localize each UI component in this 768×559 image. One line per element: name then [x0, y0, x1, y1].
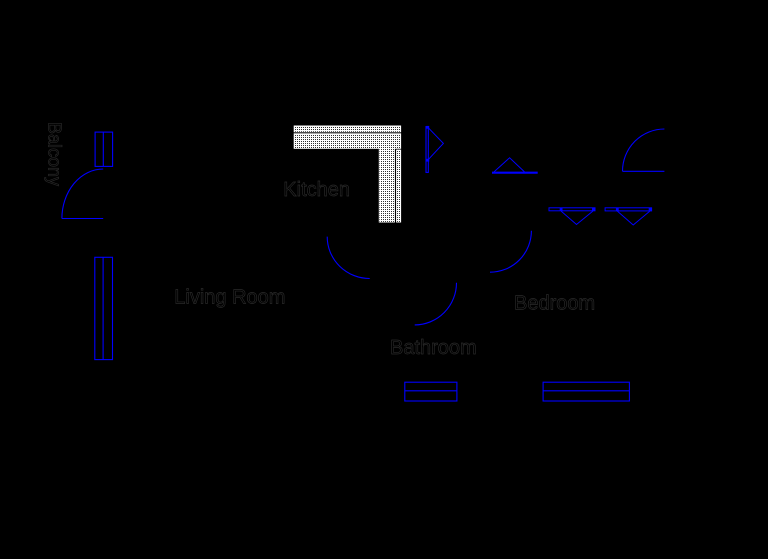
- window W4 (bedroom window): [543, 382, 629, 401]
- window W2 (left wall long window): [95, 257, 113, 359]
- door D1 leaf: [62, 218, 103, 220]
- door D2 leaf: [623, 170, 665, 172]
- door arc A3 (kitchen entry): [327, 237, 370, 279]
- window W1 (balcony door sidelight): [95, 132, 113, 166]
- casement window symbol F1 frame: [426, 127, 428, 173]
- door TR1 threshold line: [492, 172, 538, 174]
- door D1 swing arc: [62, 169, 103, 219]
- wall hatched main horizontal band: [294, 134, 401, 149]
- casement F1 junction squares: [426, 126, 429, 162]
- svg-text:Bedroom: Bedroom: [514, 293, 595, 315]
- wall hatched main vertical band: [379, 149, 395, 223]
- fixture V2 rail: [605, 208, 652, 211]
- door arc A5 (bedroom entry): [490, 231, 531, 272]
- door D2 swing arc: [623, 129, 665, 171]
- fixture V1 junction squares: [560, 208, 595, 211]
- wall hatched outer right strip: [396, 150, 400, 222]
- svg-text:Living Room: Living Room: [174, 287, 285, 309]
- svg-text:Kitchen: Kitchen: [283, 179, 350, 201]
- svg-text:Balcony: Balcony: [45, 122, 65, 186]
- wall hatched outer top strip: [294, 126, 401, 132]
- fixture V1 vee: [561, 211, 593, 225]
- casement window symbol F1 opening triangle: [428, 127, 444, 160]
- fixture V2 junction squares: [616, 208, 652, 211]
- door swing triangle TR1: [494, 158, 525, 172]
- svg-text:Bathroom: Bathroom: [390, 337, 477, 359]
- window W3 (bathroom window): [405, 382, 457, 401]
- fixture V2 vee: [617, 211, 650, 225]
- door arc A4 (bathroom entry): [415, 283, 457, 325]
- fixture V1 rail: [549, 208, 595, 211]
